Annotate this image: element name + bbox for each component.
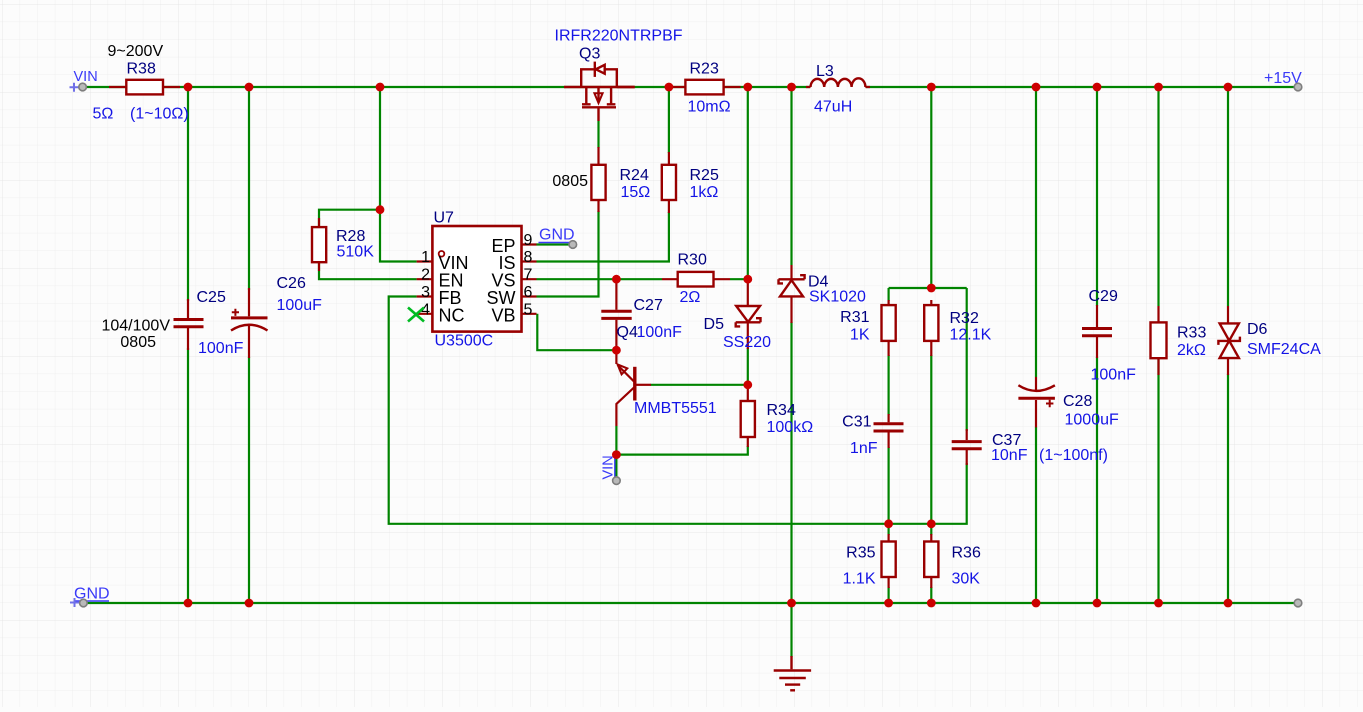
svg-text:510K: 510K (337, 244, 375, 261)
svg-text:C25: C25 (197, 289, 226, 306)
net port dot GND bottom left (80, 599, 88, 607)
capacitor C28 (polarized, 1000uF) (1018, 377, 1119, 429)
svg-text:1K: 1K (850, 327, 870, 344)
svg-text:100nF: 100nF (198, 340, 244, 357)
svg-text:GND: GND (539, 227, 575, 244)
svg-text:10nF: 10nF (991, 447, 1028, 464)
junction node R28 top / U7 VIN (376, 205, 385, 214)
svg-text:0805: 0805 (552, 173, 588, 190)
svg-text:U7: U7 (434, 210, 455, 227)
svg-text:12.1K: 12.1K (950, 327, 992, 344)
wire top rail (86, 86, 1295, 88)
wire R30 right to D5 junction (730, 278, 748, 280)
svg-text:9~200V: 9~200V (108, 43, 164, 60)
svg-text:R23: R23 (690, 61, 719, 78)
resistor R34 (741, 386, 813, 447)
diode D5 SS220 (schottky) (704, 279, 772, 351)
wire D6 column (1227, 87, 1229, 603)
svg-text:2kΩ: 2kΩ (1177, 342, 1206, 359)
resistor R28 (312, 218, 374, 271)
net port dot +15V right (1294, 83, 1302, 91)
svg-text:L3: L3 (816, 63, 834, 80)
capacitor C37 (952, 429, 1108, 465)
wire FB feedback loop from U7 pin 3 to R35/R36/C37 (389, 297, 967, 524)
svg-text:30K: 30K (952, 571, 981, 588)
wire bottom GND rail (87, 602, 1294, 604)
svg-text:R35: R35 (846, 545, 875, 562)
diode D4 SK1020 (schottky) (779, 265, 867, 323)
svg-text:U3500C: U3500C (435, 333, 494, 350)
wire R25 top to rail (668, 87, 670, 153)
svg-text:R38: R38 (127, 61, 156, 78)
svg-text:2: 2 (421, 267, 430, 284)
svg-text:5: 5 (524, 301, 533, 318)
svg-text:47uH: 47uH (814, 99, 852, 116)
resistor R35 (843, 534, 896, 588)
resistor R32 (924, 300, 991, 356)
junction node VB / C27 bottom / Q4 (612, 346, 621, 355)
wire rail to R30 node at x=748 (747, 87, 749, 279)
wire C25 column (187, 87, 189, 603)
wire U7 pin 8 IS to R25 bottom (537, 212, 669, 262)
junction FB line / C31 / R35 (884, 519, 893, 528)
svg-text:C31: C31 (842, 414, 871, 431)
net flag GND (bottom left port) (70, 586, 110, 608)
net flag GND at U7 pin 9 EP (539, 227, 575, 244)
svg-text:R30: R30 (678, 252, 707, 269)
svg-text:(1~100nf): (1~100nf) (1039, 447, 1108, 464)
svg-text:MMBT5551: MMBT5551 (634, 400, 717, 417)
svg-text:6: 6 (524, 284, 533, 301)
svg-text:Q4: Q4 (617, 324, 638, 341)
svg-text:SS220: SS220 (723, 334, 771, 351)
junction dots on +15V top rail (184, 83, 1233, 92)
resistor R38 (93, 43, 189, 123)
svg-text:R24: R24 (620, 167, 649, 184)
wire Q4 bottom to VIN flag (615, 426, 617, 477)
no-connect X on U7 pin 4 NC (408, 308, 424, 322)
svg-text:R33: R33 (1177, 325, 1206, 342)
svg-text:0805: 0805 (120, 334, 156, 351)
wire rail to R31/R32 tee (889, 87, 967, 431)
svg-text:R25: R25 (690, 167, 719, 184)
IC U7 U3500C (417, 210, 537, 350)
wire R24 top to Q3 gate (597, 121, 599, 148)
svg-text:C29: C29 (1089, 288, 1118, 305)
junction dots on GND bottom rail (184, 599, 1233, 608)
svg-text:2Ω: 2Ω (680, 289, 701, 306)
svg-text:D5: D5 (704, 316, 725, 333)
svg-text:VB: VB (491, 305, 515, 325)
MOSFET Q3 IRFR220NTRPBF (564, 62, 635, 121)
wire U7 pin 9 EP to GND flag (537, 243, 572, 245)
svg-text:5Ω: 5Ω (93, 106, 114, 123)
capacitor C25 (101, 289, 243, 357)
wire R33 column (1157, 87, 1159, 603)
svg-text:R32: R32 (950, 310, 979, 327)
wire D5 bottom to Q4 base junction (747, 348, 749, 385)
junction node Q4 base / D5 / R34 (743, 380, 752, 389)
net port dot VIN left (79, 83, 87, 91)
svg-text:100nF: 100nF (1091, 367, 1137, 384)
svg-text:100uF: 100uF (277, 297, 323, 314)
resistor R31 (840, 300, 896, 356)
net flag VIN (left input port) (70, 69, 98, 92)
wire Q4 base to junction (651, 384, 748, 386)
wire R28 bottom to U7 pin 2 EN (319, 262, 417, 279)
svg-text:D6: D6 (1247, 321, 1268, 338)
junction node R31 R32 top tee (927, 284, 936, 293)
svg-text:9: 9 (524, 232, 533, 249)
transistor Q4 MMBT5551 (616, 350, 716, 426)
wire R34 bottom elbow to emitter junction (616, 446, 747, 455)
resistor R36 (924, 534, 981, 588)
junction node Q4 bottom / R34 / VIN flag (612, 450, 621, 459)
wire D4 column rail to GND rail (790, 87, 792, 603)
resistor R24 (552, 147, 650, 212)
wire ground stem (790, 603, 792, 657)
inductor L3 (806, 63, 870, 116)
resistor R33 (1151, 306, 1207, 375)
wire U7 pin 6 SW to R24 bottom (537, 211, 599, 297)
net port dot GND at EP (569, 241, 577, 249)
wire C26 column (248, 87, 250, 603)
net flag VIN (rotated, at Q4 emitter) (601, 455, 617, 480)
svg-text:1: 1 (421, 249, 430, 266)
svg-text:100kΩ: 100kΩ (767, 419, 814, 436)
svg-text:SK1020: SK1020 (809, 289, 866, 306)
resistor R23 (670, 61, 741, 116)
junction FB line / R32 / R36 (927, 519, 936, 528)
ground symbol (774, 656, 811, 690)
svg-text:R28: R28 (336, 228, 365, 245)
wire C28 column (1035, 87, 1037, 603)
svg-text:1.1K: 1.1K (843, 571, 876, 588)
resistor R25 (662, 152, 719, 213)
capacitor C27 (601, 279, 682, 350)
svg-text:8: 8 (524, 249, 533, 266)
wire R32 bottom to FB line and R36 to GND (930, 355, 932, 603)
svg-text:R34: R34 (767, 402, 796, 419)
net port dot VIN at Q4 (613, 477, 621, 485)
wire C29 column (1096, 87, 1098, 603)
svg-text:1kΩ: 1kΩ (690, 184, 719, 201)
svg-text:Q3: Q3 (579, 46, 600, 63)
wire R31 bottom to C31 to R35 to GND (887, 355, 889, 603)
wire U7 pin 7 VS to R30 and C27 top (537, 278, 663, 280)
junction node R30 right / D5 anode (743, 275, 752, 284)
capacitor C31 (842, 414, 903, 458)
net port dot bottom right (1294, 599, 1302, 607)
svg-text:(1~10Ω): (1~10Ω) (130, 106, 189, 123)
diode D6 SMF24CA (bidirectional TVS) (1218, 306, 1321, 375)
svg-text:NC: NC (439, 305, 465, 325)
svg-text:7: 7 (524, 267, 533, 284)
svg-text:1nF: 1nF (850, 440, 878, 457)
junction node VS / C27 top (612, 275, 621, 284)
svg-text:104/100V: 104/100V (101, 318, 170, 335)
svg-text:GND: GND (74, 586, 110, 603)
svg-text:R36: R36 (952, 545, 981, 562)
svg-text:C26: C26 (277, 275, 306, 292)
capacitor C29 (1082, 288, 1136, 384)
svg-text:VIN: VIN (74, 69, 98, 85)
svg-text:100nF: 100nF (637, 324, 683, 341)
svg-text:C28: C28 (1063, 393, 1092, 410)
capacitor C26 (polarized) (231, 275, 322, 358)
svg-text:3: 3 (421, 284, 430, 301)
svg-text:15Ω: 15Ω (621, 184, 651, 201)
resistor R30 (662, 252, 730, 307)
svg-text:10mΩ: 10mΩ (688, 99, 731, 116)
wire U7 pin 5 VB to C27 bottom (537, 314, 616, 350)
svg-text:IRFR220NTRPBF: IRFR220NTRPBF (555, 28, 683, 45)
svg-text:SMF24CA: SMF24CA (1247, 341, 1321, 358)
wire R28 top loop to U7 pin 1 (319, 87, 417, 262)
svg-text:C27: C27 (634, 297, 663, 314)
svg-text:1000uF: 1000uF (1065, 412, 1119, 429)
svg-text:R31: R31 (840, 309, 869, 326)
